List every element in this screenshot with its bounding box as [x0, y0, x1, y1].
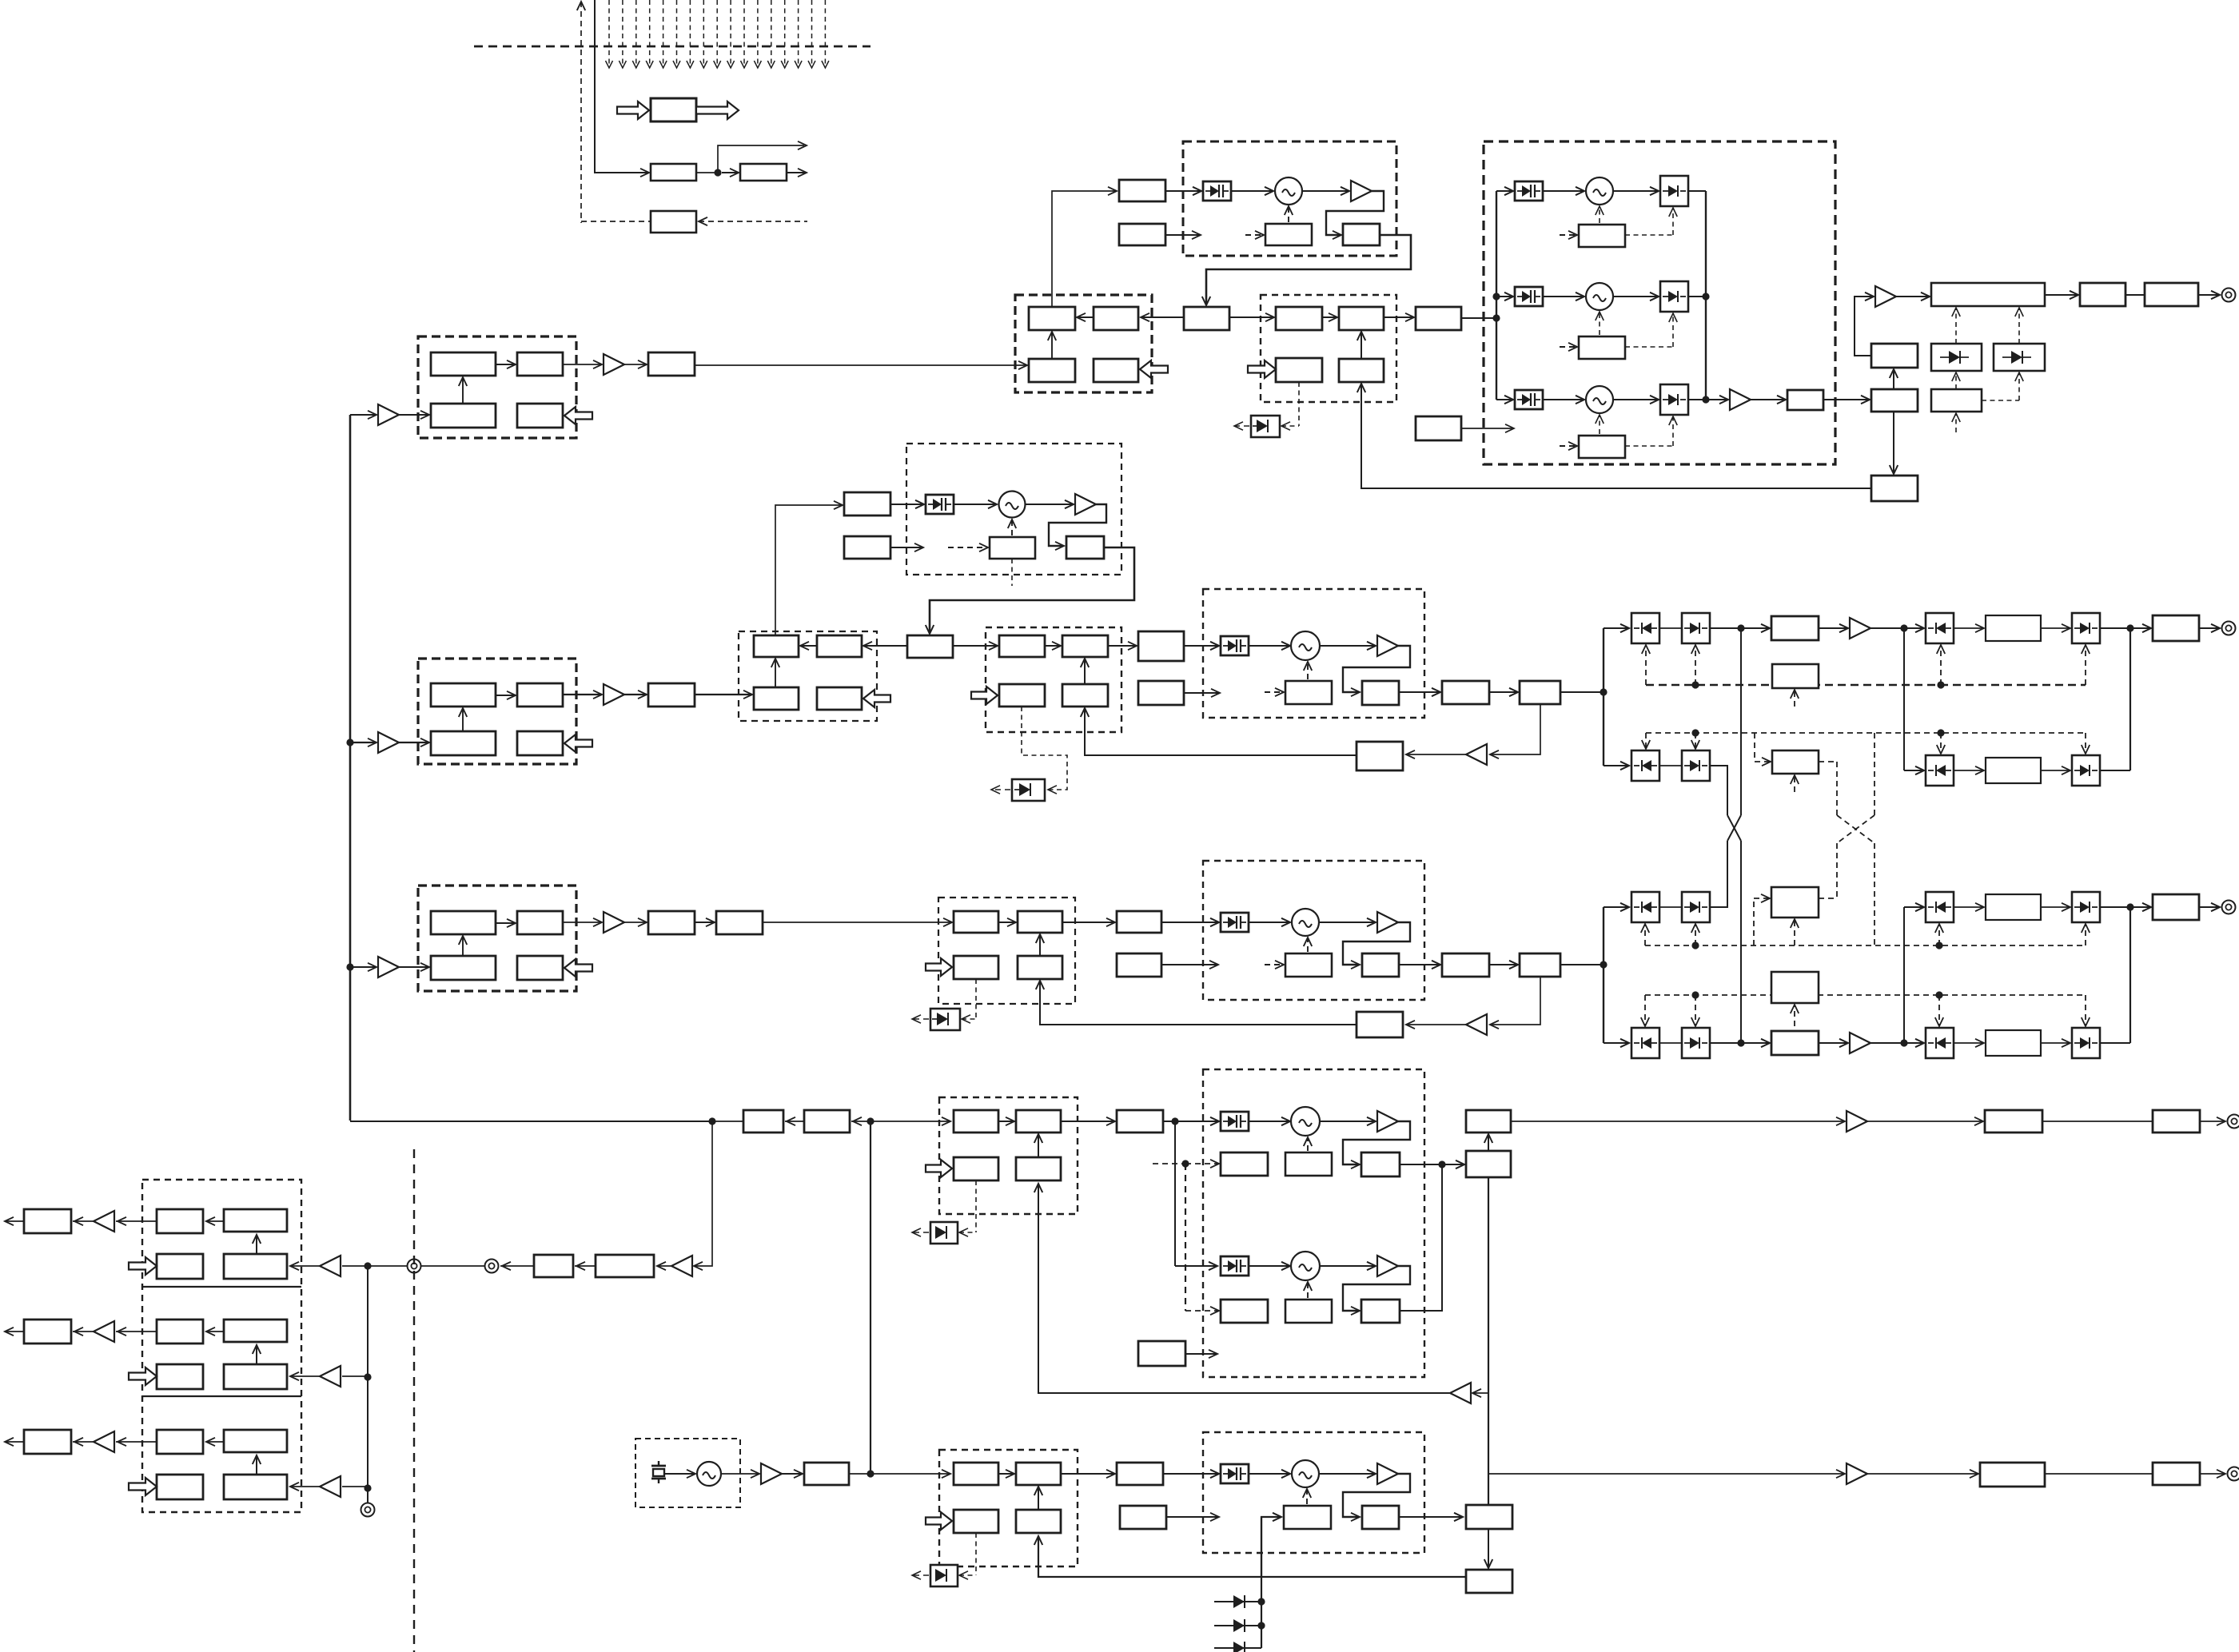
wire crystal to osc — [665, 1473, 695, 1475]
PLL4b feedback elbow — [1343, 1266, 1410, 1311]
box: bank control — [1579, 436, 1625, 458]
wire tx upper to tx amp — [1855, 297, 1874, 356]
wire g2 UR to buffer — [1384, 316, 1414, 318]
wire — [2042, 1121, 2153, 1122]
dashed ctrl5 to VCO5 — [1306, 1489, 1308, 1504]
box: PLL2 prescaler — [1362, 681, 1399, 705]
wire up to tx upper — [1893, 369, 1894, 389]
wire into varactor bank — [1496, 399, 1513, 400]
wire row5 chain down — [1488, 1529, 1489, 1566]
wire to osc bank — [1461, 317, 1496, 319]
dashed wire into ctrl1 — [1245, 234, 1264, 236]
box: matrix filter wide — [1986, 894, 2041, 920]
box: filter upper-right — [517, 911, 563, 934]
box: row3 mix UL — [954, 911, 998, 933]
wire to merge — [2100, 627, 2130, 629]
box: PLL4a control — [1285, 1152, 1332, 1176]
wire — [1489, 691, 1518, 693]
dangling arrow row4 aux2 — [1185, 1353, 1217, 1355]
box: row2 mix LR — [817, 687, 862, 710]
dashed ctrl2 to VCO2 — [1307, 662, 1309, 679]
wire row2 g2 to PLL2 input — [1108, 645, 1137, 647]
junction row4 rx tap — [708, 1117, 715, 1125]
box: row2 g2 UL — [999, 635, 1045, 657]
wire LL up to UL — [462, 936, 464, 956]
amp PLL4a — [1377, 1111, 1398, 1132]
box: row4 filter — [1985, 1110, 2042, 1133]
dashed ctrl to mini VCO — [1011, 519, 1013, 535]
box: row1 g2 LL — [1276, 358, 1322, 382]
dashed branch to ctrlB — [1754, 733, 1755, 762]
filter group dashed box — [418, 336, 576, 438]
PLL3 feedback elbow — [1343, 922, 1410, 965]
box: filter upper-left — [431, 683, 496, 707]
wire to merge — [2100, 906, 2130, 908]
wire g2 LR up to UR row2 — [1084, 659, 1086, 684]
hollow arrow into row1 mix LR — [1140, 360, 1168, 378]
wire VCO5 amp — [1319, 1473, 1376, 1475]
box: row5 filter — [1980, 1463, 2045, 1487]
wire to VCO5 — [1249, 1473, 1290, 1475]
junction bus g3 — [346, 963, 353, 970]
rx group separator 2 — [142, 1395, 301, 1397]
dashed net rowD — [1645, 994, 2086, 996]
interface box — [651, 98, 696, 121]
wire rx UR to UL — [206, 1441, 224, 1443]
wire to row2 junction — [1560, 691, 1604, 693]
wire filter to diode — [2041, 906, 2070, 908]
dashed ctrl to bias2 — [1982, 400, 2019, 401]
amp rx1 — [671, 1256, 692, 1276]
wire splitter to UR — [1141, 316, 1184, 318]
bank output rail — [1705, 191, 1707, 400]
long tx feedback wire — [1361, 384, 1871, 488]
oscillator bank VCO — [1586, 386, 1613, 413]
box: matrix filter wide — [1986, 758, 2041, 783]
junction row4 pll — [1171, 1117, 1178, 1125]
wire rx LR up to UR — [256, 1235, 257, 1254]
wire UL to UR row3mix — [998, 922, 1016, 923]
row4 out wire to amp — [1511, 1121, 1845, 1122]
wire — [696, 172, 716, 173]
dashed into bank control — [1560, 234, 1577, 236]
box: row1 mix LL — [1029, 359, 1075, 382]
box: PLL2 control — [1285, 681, 1332, 704]
box: feedback detector — [651, 211, 696, 233]
dashed ctrl to bias1 — [1955, 374, 1957, 389]
wire diode to rail — [1688, 296, 1706, 297]
amp PLL3 — [1377, 912, 1398, 933]
box: row3 chain 2 — [1520, 953, 1560, 977]
mini-PLL feedback elbow — [1049, 504, 1106, 546]
varactor-cap box PLL1 — [1203, 181, 1231, 201]
wire bus to rx amp2 — [342, 1375, 368, 1377]
wire rx amp to box — [657, 1265, 671, 1267]
diode box row1 g2 — [1251, 416, 1280, 437]
box: rx g LR wide — [224, 1475, 287, 1499]
dashed net rowB — [1646, 732, 2086, 734]
junction ref — [867, 1470, 874, 1477]
box: filter lower-right — [517, 731, 563, 755]
box: PA wide — [1931, 283, 2045, 306]
dashed to diode row1 g2 — [1298, 382, 1300, 426]
hollow arrow into row2 mix LR — [863, 690, 890, 707]
junction PLL4 merge — [1438, 1160, 1445, 1168]
box: PLL1 control — [1265, 224, 1312, 245]
junction rowC merge — [2126, 903, 2133, 910]
wire — [1442, 1164, 1464, 1165]
wire rx LR up to UR — [256, 1345, 257, 1364]
box: PLL3 control — [1285, 953, 1332, 977]
box: tx filter — [2080, 283, 2125, 306]
box: matrix filter wide — [1986, 615, 2041, 641]
box: rx if filter — [596, 1255, 654, 1277]
box: rx g UR wide — [224, 1320, 287, 1342]
box: row3 feedback att — [1357, 1012, 1403, 1037]
comb of dashed down-arrows — [608, 0, 610, 66]
connector rx mid 1 — [485, 1260, 499, 1273]
wire filter to diode — [2041, 770, 2070, 771]
dashed crossover segs — [1837, 815, 1874, 843]
diode OR rail — [1261, 1517, 1262, 1648]
wire g2 UL to UR row2 — [1045, 645, 1061, 647]
wire LL up to UL — [462, 377, 464, 404]
amp ref — [761, 1463, 782, 1484]
wire PLL4a chain — [1400, 1164, 1440, 1165]
junction dashed D — [1691, 991, 1699, 998]
wire to connector C — [2199, 906, 2220, 908]
wire LL up to UL row2mix — [775, 659, 776, 687]
thick feedback wire PLL1 to splitter — [1206, 235, 1411, 305]
row4 feedback branch — [1472, 1392, 1488, 1394]
hollow arrow into LR — [564, 734, 592, 752]
box: row4 chain — [1466, 1151, 1511, 1177]
wire between diode boxes — [1659, 765, 1682, 766]
box: PLL4b control — [1285, 1300, 1332, 1323]
wire PLL3 chain — [1399, 964, 1440, 965]
junction row4 main — [867, 1117, 874, 1125]
wire g2 LR up to UR — [1361, 332, 1362, 359]
box: rowD driver — [1771, 1031, 1819, 1055]
wire UL to UR row5 — [998, 1473, 1014, 1475]
wire up-right — [718, 145, 804, 173]
box: row5 mix LR — [1016, 1510, 1061, 1533]
wire to merge — [2100, 770, 2130, 771]
varactor-cap box bank — [1515, 287, 1543, 306]
wire chain up to out — [1488, 1134, 1489, 1151]
box: PLL5 input — [1117, 1463, 1163, 1485]
wire UL to UR — [496, 695, 516, 696]
PLL5 dashed box — [1203, 1432, 1424, 1553]
diode box rx out — [2072, 1028, 2100, 1058]
dangling arrow row5 aux — [1166, 1516, 1219, 1518]
box: row3 buffer 1 — [648, 911, 695, 934]
long dashed boundary vertical — [413, 1149, 415, 1652]
row1 second group dashed box — [1261, 295, 1396, 402]
dashed to diode row5 — [975, 1533, 977, 1575]
row3 branch vertical — [1603, 907, 1604, 1043]
dashed to diode row4 — [975, 1180, 977, 1232]
row4 group dashed box — [939, 1097, 1078, 1214]
box: rx g UL — [157, 1320, 203, 1343]
wire rail to amp — [1706, 399, 1728, 400]
diode box row2 g2 — [1012, 779, 1045, 801]
wire into varactor bank — [1496, 190, 1513, 192]
wire row1 UL up to PLL1 — [1052, 191, 1115, 307]
wire — [2125, 294, 2145, 296]
wire — [1489, 964, 1518, 965]
dashed to diode row3 — [975, 979, 977, 1019]
wire splitter to 2nd group — [1229, 316, 1274, 318]
wire rx UR to UL — [206, 1331, 224, 1332]
box: row5 lpf — [2153, 1463, 2200, 1485]
amp rx g out — [94, 1211, 114, 1232]
box: row1 g2 UR — [1339, 307, 1384, 330]
PLL1 dashed box — [1183, 141, 1396, 256]
box: row5 feedback det — [1466, 1570, 1512, 1593]
oscillator VCO4a — [1291, 1107, 1320, 1136]
box: row2 chain 2 — [1520, 681, 1560, 704]
hollow arrow into LR — [564, 407, 592, 424]
junction dashed D2 — [1935, 991, 1942, 998]
PLL4 tall dashed box — [1203, 1069, 1424, 1377]
wire amp to PA — [1896, 296, 1930, 297]
box: rowA driver — [1771, 616, 1819, 640]
dashed ctrl to diode — [1625, 445, 1673, 447]
varactor-cap box PLL4a — [1221, 1112, 1249, 1131]
wire — [695, 922, 715, 923]
diode box matrix left b — [1682, 892, 1710, 922]
box: aux to bank — [1416, 416, 1461, 440]
rx groups dashed box — [142, 1180, 301, 1512]
box: rx g LL — [157, 1364, 203, 1389]
varactor-cap box PLL4b — [1221, 1256, 1249, 1276]
PLL2 dashed box — [1203, 589, 1424, 718]
wire into varactor PLL3 — [1161, 922, 1219, 923]
wire LL up to UL — [462, 708, 464, 731]
box: row1 post buffer — [1416, 307, 1461, 330]
hollow arrow into row5 mix LL — [926, 1512, 952, 1530]
oscillator VCO2 — [1291, 631, 1320, 660]
dashed branch to ctrlC — [1753, 898, 1755, 945]
box: bank control — [1579, 336, 1625, 359]
dashed arrow out diode row3 — [912, 1018, 929, 1020]
amp PLL2 — [1377, 635, 1398, 656]
dashed ctrl to VCO — [1599, 208, 1600, 223]
varactor-cap box bank — [1515, 390, 1543, 409]
wire into varactor PLL5 — [1163, 1473, 1219, 1475]
box: row3 aux — [1117, 953, 1161, 977]
wire branch to rowC — [1604, 906, 1629, 908]
diode box matrix left b — [1682, 1028, 1710, 1058]
box: row4 lpf — [2153, 1110, 2200, 1133]
oscillator bank VCO — [1586, 177, 1613, 205]
diode box rx out — [2072, 892, 2100, 922]
box: PLL5 control — [1284, 1506, 1331, 1529]
wire LR up to UR row4 — [1038, 1134, 1039, 1157]
box: row4 b1 — [743, 1110, 783, 1133]
oscillator VCO4b — [1291, 1252, 1320, 1280]
junction dashed A2 — [1937, 681, 1944, 688]
wire row3 to PLL3 input box — [1062, 922, 1115, 923]
wire amp2 to LR — [290, 1486, 320, 1487]
wire dot to box2 row4 — [851, 1121, 871, 1122]
diode box rx out — [2072, 755, 2100, 786]
wire to varactor — [890, 504, 924, 505]
wire LR up to UR row3mix — [1039, 934, 1041, 956]
box: row4 b2 — [804, 1110, 850, 1133]
amp row2 feedback — [1466, 744, 1487, 765]
main bus vertical — [349, 415, 352, 1121]
wire box2 to box1 row4 — [785, 1121, 804, 1122]
box: row1 splitter — [1184, 307, 1229, 330]
box: row5 aux — [1120, 1506, 1166, 1529]
junction rail mid — [1702, 293, 1709, 300]
wire filter to diode — [2041, 1042, 2070, 1044]
box: rx g LL — [157, 1475, 203, 1499]
wire into varactor PLL1 — [1165, 190, 1201, 192]
box: row4 aux2 — [1138, 1341, 1185, 1366]
wire to VCO bank — [1543, 296, 1584, 297]
amp tx chain — [1875, 286, 1896, 307]
hollow arrow into rx g LL — [129, 1257, 157, 1275]
box: row1 g2 UL — [1276, 307, 1322, 330]
diode box rx in — [1926, 892, 1954, 922]
junction — [714, 169, 721, 176]
wire between diode boxes — [1659, 906, 1682, 908]
wire to VCO PLL1 — [1231, 190, 1273, 192]
amp row2 out — [604, 684, 624, 705]
crystal osc dashed box — [635, 1439, 740, 1507]
thick wire miniPLL to row2 splitter — [930, 547, 1134, 633]
diode box PA bias 1 — [1931, 344, 1982, 371]
row4 chain down vertical — [1488, 1177, 1489, 1505]
crystal X1 — [658, 1461, 659, 1466]
solid crossover segs — [1727, 815, 1741, 841]
wire row5 group to input box — [1061, 1473, 1115, 1475]
dashed corner rowB net down — [1874, 733, 1875, 815]
dangling arrow mini aux — [890, 547, 923, 548]
wire to VCO bank — [1543, 399, 1584, 400]
row5 group dashed box — [939, 1450, 1078, 1566]
wire VCO to diode — [1613, 399, 1659, 400]
amp row4 feedback — [1450, 1383, 1471, 1403]
rx bus vertical — [367, 1266, 369, 1503]
wire VCO3 to amp — [1319, 922, 1376, 923]
box: row2 splitter — [907, 635, 953, 658]
wire — [1741, 627, 1770, 629]
wire bank to tx switch — [1823, 399, 1870, 400]
dashed ctrlC right — [1819, 898, 1837, 899]
amp PLL5 — [1377, 1463, 1398, 1484]
wire to VCO — [954, 504, 997, 505]
row2 mixer group dashed box — [739, 631, 877, 721]
wire to merge — [2100, 1042, 2130, 1044]
wire — [2045, 1473, 2153, 1475]
wire branch to rowD — [1604, 1042, 1629, 1044]
wire — [1867, 1121, 1983, 1122]
wire — [1819, 627, 1848, 629]
box: row5 mix UL — [954, 1463, 998, 1485]
wire LL up to UL row1mix — [1051, 332, 1053, 359]
dashed to rowC net — [1874, 843, 1875, 945]
wire rx UL to amp — [116, 1220, 157, 1222]
junction rx bus 2 — [364, 1373, 371, 1380]
wire — [1867, 1473, 1978, 1475]
connector rowC — [2222, 901, 2236, 914]
diode box row5 — [930, 1565, 958, 1586]
row3 mixer group dashed box — [938, 898, 1075, 1004]
solid riser to PLL5 control — [1261, 1517, 1281, 1577]
wire out — [787, 172, 807, 173]
box: rx g LR wide — [224, 1254, 287, 1279]
wire amp to box — [73, 1331, 94, 1332]
wire to filter — [1954, 1042, 1984, 1044]
arrow exit left — [5, 1331, 24, 1332]
wire amp to box — [1751, 399, 1786, 400]
box: row1 mix UR — [1094, 307, 1138, 330]
wire osc to amp — [721, 1473, 759, 1475]
long vertical row4 to row5 — [870, 1121, 871, 1474]
connector rx bus bottom — [361, 1503, 375, 1517]
box: filter lower-left — [431, 404, 496, 428]
box: row1 buffer — [648, 352, 695, 376]
diode box PA bias 2 — [1994, 344, 2045, 371]
dashed to ctrlC — [1836, 843, 1838, 898]
junction rowD — [1737, 1039, 1744, 1046]
wire diode to rail — [1688, 190, 1706, 192]
dashed stub mini ctrl — [1011, 559, 1013, 586]
long wire row3 to mixer — [763, 922, 952, 923]
junction rowD split — [1900, 1039, 1907, 1046]
wire rowC to crossover — [1709, 841, 1727, 907]
dashed into bank control — [1560, 445, 1577, 447]
wire amp to box — [73, 1441, 94, 1443]
wire to VCO bank — [1543, 190, 1584, 192]
junction rowA split — [1900, 624, 1907, 631]
wire branch to rowA — [1604, 627, 1629, 629]
junction bank mid — [1492, 293, 1500, 300]
hollow arrow into LR — [564, 959, 592, 977]
wire — [849, 1473, 871, 1475]
box: PLL4b aux — [1221, 1300, 1268, 1323]
junction rail bottom — [1702, 396, 1709, 403]
diode box matrix left b — [1682, 613, 1710, 643]
filter group dashed box — [418, 659, 576, 764]
PLL4a feedback elbow — [1343, 1121, 1410, 1164]
wire to VCO3 — [1249, 922, 1290, 923]
wire to rx bus — [368, 1265, 407, 1267]
wire between diode boxes — [1659, 1042, 1682, 1044]
varactor-cap box miniPLL — [926, 495, 954, 514]
wire PLL2 chain — [1399, 691, 1440, 693]
box: driver — [740, 164, 787, 181]
junction dashed B — [1691, 729, 1699, 736]
box: tx switch lower — [1871, 389, 1918, 412]
box: row1 aux — [1119, 224, 1165, 245]
box: matrix filter wide — [1986, 1030, 2041, 1056]
junction dashed A — [1691, 681, 1699, 688]
box: row4 mix UR — [1016, 1110, 1061, 1133]
rowD merge vertical — [2129, 907, 2131, 1043]
dashed stub ctrlD — [1794, 1006, 1795, 1026]
box: PLL4 input — [1117, 1110, 1163, 1133]
wire dot to box1 row4 — [712, 1121, 743, 1122]
box: PLL1 prescaler — [1343, 224, 1380, 245]
wire into varactor bank — [1496, 296, 1513, 297]
wire diode to rail — [1688, 399, 1706, 400]
dashed stub ctrlA — [1794, 691, 1795, 707]
